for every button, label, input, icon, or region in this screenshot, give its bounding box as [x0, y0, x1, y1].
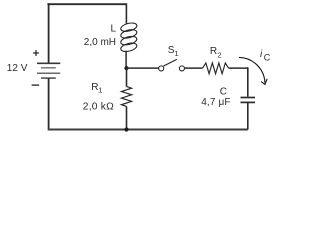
battery plate long — [37, 72, 60, 74]
svg-text:2,0 kΩ: 2,0 kΩ — [83, 101, 114, 112]
wire right branch lower — [247, 102, 249, 129]
svg-text:12 V: 12 V — [7, 63, 28, 74]
current arrow iC arc — [239, 57, 265, 82]
svg-text:4,7 μF: 4,7 μF — [201, 97, 230, 108]
wire left branch lower — [48, 78, 50, 129]
wire right branch upper — [247, 67, 249, 96]
svg-text:2,0 mH: 2,0 mH — [84, 37, 116, 48]
wire R1 upper lead — [126, 68, 128, 87]
svg-text:i: i — [260, 49, 263, 60]
wire R2 to right corner — [229, 67, 247, 69]
switch S1 right contact — [179, 66, 184, 71]
wire left branch upper — [48, 3, 50, 63]
capacitor C plate bottom — [241, 101, 256, 103]
wire middle to switch — [126, 67, 158, 69]
wire bottom — [48, 129, 248, 131]
battery plate long top — [37, 62, 60, 64]
wire switch to R2 — [184, 67, 202, 69]
svg-text:2: 2 — [217, 50, 221, 59]
junction node bottom — [124, 127, 128, 131]
inductor L 2,0 mH coil — [120, 22, 138, 53]
junction node top — [124, 66, 128, 70]
svg-text:L: L — [111, 24, 117, 35]
svg-text:C: C — [264, 53, 271, 63]
battery B1 12 V — [37, 63, 60, 78]
resistor R2 zigzag — [203, 63, 229, 74]
switch S1 left contact — [159, 66, 164, 71]
switch S1 blade — [163, 59, 176, 66]
resistor R1 zigzag — [121, 87, 131, 107]
label + — [33, 50, 39, 56]
current arrow iC head — [261, 79, 267, 85]
wire top — [47, 3, 126, 5]
svg-text:R: R — [210, 46, 217, 57]
wire middle branch below coil — [125, 51, 127, 68]
wire R1 lower lead — [126, 107, 128, 130]
battery plate short — [41, 67, 56, 69]
label minus — [32, 84, 40, 86]
svg-text:1: 1 — [174, 49, 178, 58]
capacitor C plate top — [241, 97, 256, 99]
battery plate short bottom — [41, 77, 56, 79]
wire middle branch upper — [125, 3, 127, 23]
svg-text:1: 1 — [98, 86, 102, 95]
corner piece — [246, 67, 249, 69]
